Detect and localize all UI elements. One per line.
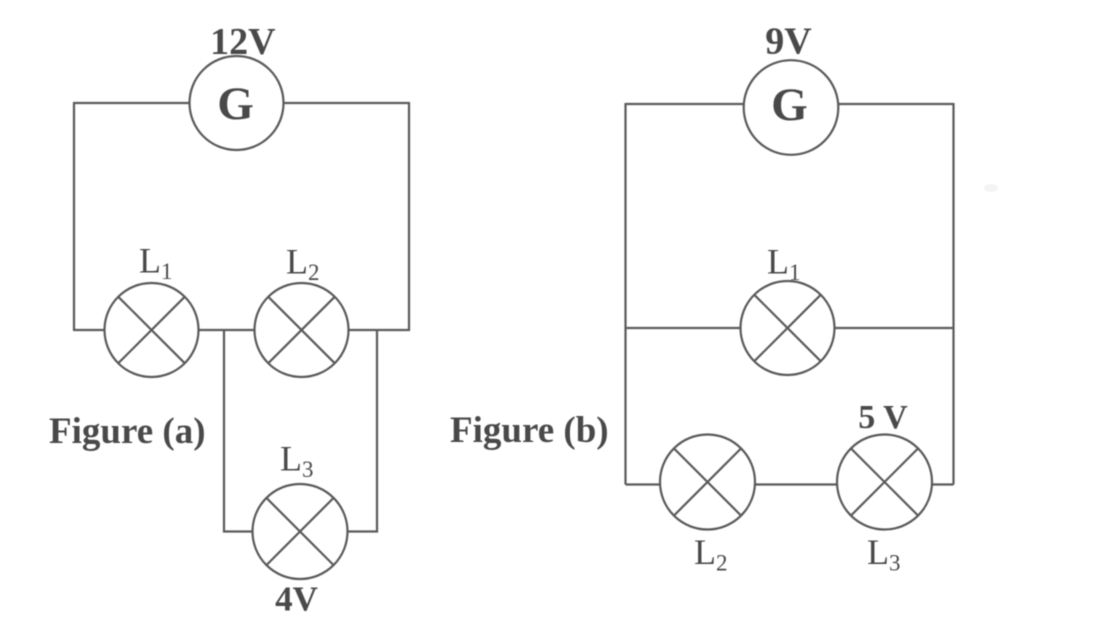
wire: right vertical side — [408, 102, 410, 331]
wire: lamp row left segment — [74, 329, 105, 331]
generator G2 circle — [744, 60, 839, 155]
lamp L1 — [105, 283, 199, 377]
generator G1 circle — [190, 56, 284, 150]
wire: right vertical side — [952, 103, 954, 485]
wire: top-left segment from G to left corner — [74, 102, 190, 104]
wire: left vertical side — [624, 103, 626, 485]
svg-text:G: G — [771, 79, 808, 131]
svg-text:Figure (a): Figure (a) — [49, 411, 206, 452]
lamp L3 (figure b) — [837, 435, 932, 530]
wire: top-right segment from G to right corner — [838, 103, 953, 105]
svg-text:L1: L1 — [139, 241, 173, 285]
svg-text:5 V: 5 V — [858, 399, 908, 436]
svg-text:9V: 9V — [765, 21, 812, 63]
scan artifact dot — [984, 184, 998, 192]
lamp L3 — [253, 484, 348, 579]
wire: bottom row middle segment — [755, 483, 838, 485]
wire: bottom row right segment — [932, 483, 954, 485]
wire: bottom row left segment — [626, 483, 661, 485]
wire: branch down from node between L1 and L2 — [224, 330, 253, 532]
wire: middle row right segment — [835, 327, 954, 329]
wire: lamp row right segment — [349, 329, 410, 331]
svg-text:L3: L3 — [280, 439, 314, 483]
svg-text:4V: 4V — [275, 580, 318, 619]
svg-text:L3: L3 — [867, 532, 901, 576]
wire: top-left segment from G to left corner — [626, 103, 744, 105]
svg-text:Figure (b): Figure (b) — [450, 410, 609, 451]
lamp L2 — [255, 283, 349, 377]
lamp L2 (figure b) — [660, 435, 755, 530]
wire: top-right segment from G to right corner — [284, 102, 410, 104]
svg-text:L1: L1 — [767, 242, 801, 286]
svg-text:L2: L2 — [694, 532, 728, 576]
wire: between L1 and L2 — [199, 329, 255, 331]
svg-text:L2: L2 — [286, 242, 320, 286]
wire: left vertical side — [73, 102, 75, 331]
wire: branch down right of L2 to L3 — [348, 330, 378, 532]
svg-text:12V: 12V — [210, 21, 276, 63]
svg-text:G: G — [217, 78, 254, 130]
wire: middle row left segment — [626, 327, 741, 329]
lamp L1 (figure b) — [741, 281, 835, 375]
